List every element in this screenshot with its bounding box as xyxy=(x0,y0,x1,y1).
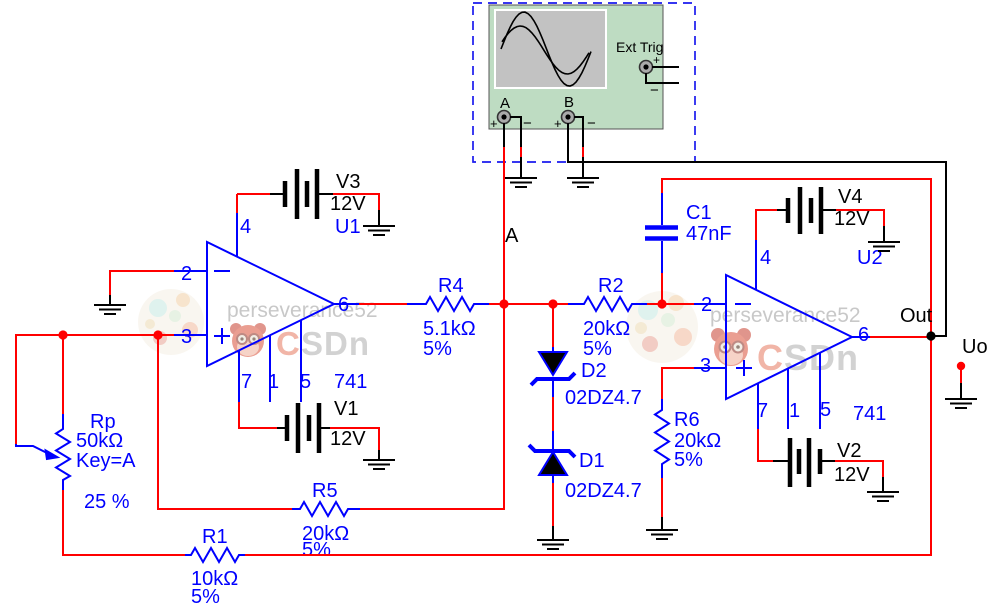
svg-text:R5: R5 xyxy=(312,480,338,502)
svg-text:Key=A: Key=A xyxy=(76,450,136,472)
wire U1 pin3 left xyxy=(16,335,174,444)
zener diode D1 xyxy=(529,431,575,483)
battery V1 xyxy=(277,403,379,460)
zener diode D2 xyxy=(531,304,575,397)
op-amp U2 pin 4 stub xyxy=(755,240,757,290)
op-amp U2 pin 2 stub xyxy=(694,303,726,305)
svg-text:V2: V2 xyxy=(837,440,861,462)
svg-text:C1: C1 xyxy=(686,202,712,224)
svg-text:5: 5 xyxy=(300,371,311,393)
svg-text:12V: 12V xyxy=(330,428,366,450)
ground at R6 xyxy=(646,530,678,539)
wire U1 pin2 to ground xyxy=(110,271,174,295)
svg-text:V1: V1 xyxy=(334,398,358,420)
svg-text:7: 7 xyxy=(757,400,768,422)
op-amp U2 pin 6 output stub xyxy=(852,336,870,338)
wire junction to Rp top xyxy=(62,335,64,414)
junction dot node D2 xyxy=(548,299,557,308)
svg-text:R4: R4 xyxy=(438,275,464,297)
svg-text:3: 3 xyxy=(700,355,711,377)
svg-text:−: − xyxy=(650,82,659,99)
channel A terminal xyxy=(490,111,532,133)
svg-text:perseverance52: perseverance52 xyxy=(710,304,861,327)
wire junction down to R5 xyxy=(158,335,292,509)
op-amp U2 pin 1 stub xyxy=(787,369,789,429)
wire R6 to ground xyxy=(661,478,663,517)
potentiometer Rp xyxy=(16,414,70,490)
svg-text:12V: 12V xyxy=(834,208,870,230)
battery V3 xyxy=(237,169,379,226)
oscilloscope XSC1 body xyxy=(489,5,663,129)
op-amp U1 pin 6 output stub xyxy=(334,303,359,305)
svg-text:5%: 5% xyxy=(674,449,703,471)
svg-text:02DZ4.7: 02DZ4.7 xyxy=(565,480,642,502)
svg-text:+: + xyxy=(554,116,562,131)
wire node to R2 xyxy=(553,303,568,305)
svg-text:SDn: SDn xyxy=(301,325,370,362)
resistor R4 xyxy=(407,297,489,311)
resistor R5 xyxy=(292,502,360,516)
battery V2 xyxy=(773,438,883,492)
wire R4 to node A to D2 node xyxy=(489,303,553,305)
wire scope A minus to ground xyxy=(510,117,521,147)
ground at Uo xyxy=(945,399,977,408)
capacitor C1 xyxy=(645,193,678,273)
watermark monkey right xyxy=(711,328,751,366)
Ext Trig terminal xyxy=(640,53,661,99)
resistor R1 xyxy=(185,548,245,562)
wire scope A plus down to node A xyxy=(503,123,505,147)
svg-text:−: − xyxy=(523,115,532,132)
junction dot node pin3-R5 xyxy=(153,330,162,339)
svg-text:5%: 5% xyxy=(191,586,220,608)
junction dot node C1 xyxy=(657,299,666,308)
svg-text:V3: V3 xyxy=(336,171,360,193)
svg-text:3: 3 xyxy=(181,326,192,348)
wire bottom bus left xyxy=(63,554,185,556)
wire R5 right to node A xyxy=(360,304,504,509)
wire R2 to U2 pin2 xyxy=(647,303,694,305)
wire Ext Trig plus stub xyxy=(652,66,679,68)
svg-text:D2: D2 xyxy=(581,360,607,382)
svg-text:741: 741 xyxy=(334,371,367,393)
svg-text:7: 7 xyxy=(241,371,252,393)
op-amp U1 pin 4 stub xyxy=(236,213,238,257)
svg-text:5%: 5% xyxy=(302,539,331,561)
svg-text:12V: 12V xyxy=(834,464,870,486)
svg-text:5.1kΩ: 5.1kΩ xyxy=(423,318,476,340)
ground at V4 xyxy=(868,242,900,251)
svg-text:20kΩ: 20kΩ xyxy=(583,318,630,340)
svg-text:+: + xyxy=(490,116,498,131)
wire U1 output to R4 xyxy=(359,303,407,305)
svg-text:12V: 12V xyxy=(330,193,366,215)
svg-text:741: 741 xyxy=(853,403,886,425)
svg-text:D1: D1 xyxy=(579,450,605,472)
wire U1 pin7 to V1 xyxy=(239,402,277,428)
svg-text:4: 4 xyxy=(760,247,771,269)
wire U2 output to Out node xyxy=(870,336,931,338)
oscilloscope dashed selection box xyxy=(473,3,695,162)
svg-text:2: 2 xyxy=(181,263,192,285)
wire Ext Trig minus stub xyxy=(646,73,679,83)
svg-text:R1: R1 xyxy=(202,526,228,548)
svg-text:50kΩ: 50kΩ xyxy=(76,430,123,452)
ground at V2 xyxy=(867,492,899,501)
svg-text:SDn: SDn xyxy=(784,337,859,378)
watermark globe left xyxy=(138,289,204,355)
junction dot node pin3-Rp xyxy=(58,330,67,339)
oscilloscope trace channel B xyxy=(502,26,589,74)
watermark CSDN left xyxy=(276,325,370,362)
op-amp U1 pin 3 stub xyxy=(174,334,207,336)
svg-text:25 %: 25 % xyxy=(84,491,130,513)
svg-text:A: A xyxy=(505,225,519,247)
ground scope A xyxy=(505,178,537,187)
svg-text:+: + xyxy=(653,53,660,67)
oscilloscope trace channel A xyxy=(501,12,591,86)
watermark globe right xyxy=(626,291,698,363)
wire scope B plus to Out (black) xyxy=(568,123,946,336)
op-amp U2 pin 5 stub xyxy=(819,353,821,429)
watermark CSDN right xyxy=(757,337,859,378)
svg-text:A: A xyxy=(500,95,510,112)
wire C1 top feedback xyxy=(661,273,663,304)
svg-text:1: 1 xyxy=(268,371,279,393)
op-amp U1 pin 5 stub xyxy=(300,320,302,402)
battery V4 xyxy=(777,187,884,242)
svg-text:−: − xyxy=(587,115,596,132)
svg-text:5%: 5% xyxy=(423,338,452,360)
Uo probe terminal xyxy=(957,362,965,370)
svg-text:5%: 5% xyxy=(583,338,612,360)
svg-text:Out: Out xyxy=(900,305,933,327)
op-amp U1 pin 2 stub xyxy=(174,270,207,272)
op-amp U2 pin 7 stub xyxy=(757,383,759,429)
svg-text:R6: R6 xyxy=(674,409,700,431)
wire D1 to ground xyxy=(552,483,554,526)
ground at V3 xyxy=(363,226,395,235)
channel B terminal xyxy=(554,111,596,133)
svg-text:Uo: Uo xyxy=(962,336,988,358)
wire scope B minus to ground xyxy=(574,117,583,147)
junction dot node A xyxy=(499,299,508,308)
svg-text:B: B xyxy=(564,94,574,111)
op-amp U2 pin 3 stub xyxy=(694,367,726,369)
svg-text:2: 2 xyxy=(701,294,712,316)
op-amp U1 pin 7 stub xyxy=(238,350,240,402)
svg-text:6: 6 xyxy=(858,324,869,346)
wire U2 pin3 to R6 xyxy=(662,368,694,399)
ground at U1 pin2 xyxy=(94,305,126,314)
svg-text:4: 4 xyxy=(240,216,251,238)
wire D2 to D1 xyxy=(552,397,554,431)
op-amp U2 741 triangle xyxy=(726,275,852,399)
Rp wiper arrowhead xyxy=(45,450,59,460)
junction dot Out xyxy=(926,331,935,340)
svg-text:6: 6 xyxy=(338,294,349,316)
resistor R6 xyxy=(655,399,669,478)
ground at D1 xyxy=(537,540,569,549)
svg-text:U1: U1 xyxy=(335,216,361,238)
wire U2 pin7 to V2 xyxy=(758,429,773,461)
ground scope B xyxy=(567,178,599,187)
svg-text:5: 5 xyxy=(820,399,831,421)
wire U1 pin4 red xyxy=(236,194,238,213)
resistor R2 xyxy=(568,297,647,311)
wire bottom bus right xyxy=(245,336,931,555)
svg-text:47nF: 47nF xyxy=(686,223,732,245)
op-amp U1 741 triangle xyxy=(207,242,334,366)
wire U2 pin4 red xyxy=(756,210,777,240)
op-amp U1 pin 1 stub xyxy=(269,335,271,402)
svg-text:1: 1 xyxy=(789,400,800,422)
svg-text:R2: R2 xyxy=(598,275,624,297)
svg-text:02DZ4.7: 02DZ4.7 xyxy=(565,387,642,409)
svg-text:V4: V4 xyxy=(838,186,862,208)
ground at V1 xyxy=(363,460,395,469)
wire Rp bottom to bus xyxy=(63,490,64,555)
wire Uo probe xyxy=(960,370,962,383)
watermark monkey left xyxy=(230,323,266,357)
